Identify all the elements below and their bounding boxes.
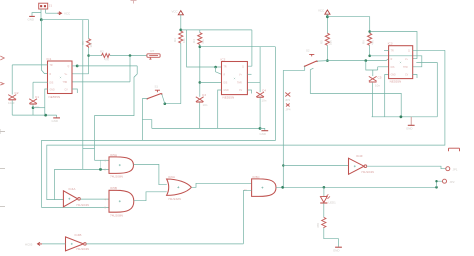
wire THR1 tap down xyxy=(129,56,131,82)
ground GND8 xyxy=(333,247,342,252)
svg-text:GND: GND xyxy=(406,127,412,131)
svg-text:Q: Q xyxy=(408,51,410,53)
wire C1 to GND pin xyxy=(33,107,45,109)
svg-text:CV: CV xyxy=(239,90,243,92)
wire AND3 out xyxy=(276,186,437,188)
wire R8 to ground xyxy=(324,228,339,247)
svg-text:IC1: IC1 xyxy=(47,57,52,61)
svg-text:DIS: DIS xyxy=(391,67,395,69)
svg-text:2A: 2A xyxy=(244,189,247,192)
wire switch3 common net xyxy=(310,68,401,117)
svg-text:R4: R4 xyxy=(192,39,196,43)
wire C4 bottom lead xyxy=(259,98,261,129)
junction dot AND3 out xyxy=(281,186,284,189)
wire down to INV1 input xyxy=(53,169,55,199)
net flag VCC right arrow xyxy=(58,11,71,15)
wire INV2 input xyxy=(42,243,66,245)
svg-text:GND: GND xyxy=(28,18,34,22)
svg-text:IC6A: IC6A xyxy=(168,175,176,179)
svg-text:JP2: JP2 xyxy=(450,180,455,184)
capacitor C1 xyxy=(29,95,40,109)
svg-text:C1: C1 xyxy=(35,95,39,99)
wire R2 to trimmer xyxy=(110,55,147,57)
svg-text:DIS: DIS xyxy=(224,83,228,85)
ground GND3 xyxy=(260,128,269,136)
net flag arrow left xyxy=(25,242,42,246)
wire ground rail 2 xyxy=(152,127,260,129)
svg-text:74LS04N: 74LS04N xyxy=(76,247,89,251)
svg-text:GND: GND xyxy=(260,132,266,136)
svg-text:C3: C3 xyxy=(202,93,206,97)
trimmer R7 xyxy=(147,49,160,59)
wire R4 bottom down to C3 xyxy=(199,45,201,97)
frame tick left D xyxy=(0,206,5,208)
wire stub above dot xyxy=(100,160,102,169)
frame tick top xyxy=(131,1,137,4)
wire THR1 row xyxy=(72,81,130,83)
wire R3 bottom to switch xyxy=(165,43,181,104)
svg-text:VCC: VCC xyxy=(64,11,70,15)
svg-text:JP3: JP3 xyxy=(285,98,290,102)
wire jog to ground xyxy=(32,13,41,16)
svg-text:CV: CV xyxy=(405,75,409,77)
wire CV3 stub xyxy=(413,75,417,79)
wire rail3 to V+3 xyxy=(370,32,417,59)
resistor R1 xyxy=(81,20,93,74)
wire VCC2 stem xyxy=(180,15,182,30)
wire R6 to THR3 xyxy=(370,56,422,67)
frame tick left B xyxy=(0,129,5,134)
wire TR1 row xyxy=(12,64,47,66)
wire GND1 pin down xyxy=(45,89,48,115)
supply arrow VCC3 xyxy=(318,9,330,15)
wire VCC drop long xyxy=(82,20,84,170)
wire DIS2 row xyxy=(200,81,222,83)
svg-text:47k: 47k xyxy=(371,40,375,45)
inverter U4A xyxy=(63,187,89,207)
svg-text:10k: 10k xyxy=(182,38,186,43)
svg-text:J1: J1 xyxy=(49,4,53,8)
svg-text:74LS04N: 74LS04N xyxy=(76,203,89,207)
capacitor C5 xyxy=(369,75,382,87)
wire THR2 riser xyxy=(247,47,260,92)
wire J1 pin1 down xyxy=(41,9,46,20)
wire C5 top lead xyxy=(372,70,374,76)
svg-text:10k: 10k xyxy=(89,42,93,47)
ground GND4 xyxy=(406,117,415,131)
IC3 555 timer xyxy=(388,42,413,84)
wire R5 to reset IC3 xyxy=(327,59,388,61)
wire Q1 long xyxy=(77,65,137,67)
junction dot U7 input xyxy=(282,164,284,166)
wire C3 bottom lead xyxy=(199,103,201,129)
svg-text:IC4B: IC4B xyxy=(75,233,82,237)
bus wire 2 xyxy=(47,50,445,199)
wire R1 to R2 xyxy=(89,55,102,57)
OR gate U6A xyxy=(167,175,192,201)
wire VCC rail 3 xyxy=(327,17,369,34)
wire VCC rail 1 xyxy=(41,19,88,21)
svg-text:GND: GND xyxy=(50,89,55,91)
junction dot R6 top xyxy=(368,30,371,33)
wire to VCC flag xyxy=(46,12,58,14)
svg-text:10n: 10n xyxy=(375,84,380,88)
svg-text:Q: Q xyxy=(68,66,70,68)
wire Q3 to bus2 xyxy=(413,49,445,51)
svg-text:47k: 47k xyxy=(104,57,109,61)
frame tick left A2 xyxy=(0,82,4,85)
svg-text:IC2: IC2 xyxy=(221,58,226,62)
AND gate U5B xyxy=(105,186,134,217)
svg-text:74LS08N: 74LS08N xyxy=(110,175,123,179)
svg-text:IC3: IC3 xyxy=(388,42,393,46)
svg-text:THR: THR xyxy=(63,82,68,84)
wire ground rail 2 left hook xyxy=(142,120,151,129)
wire switch3 net vertical xyxy=(282,70,284,187)
junction dot R4 bottom xyxy=(199,45,202,48)
resistor R5 xyxy=(320,33,333,45)
svg-text:C2: C2 xyxy=(15,91,19,95)
junction dot pad2 xyxy=(435,180,437,182)
svg-text:IC4A: IC4A xyxy=(69,187,77,191)
svg-text:74LS32N: 74LS32N xyxy=(168,197,181,201)
wire TR3 stub xyxy=(384,50,389,52)
wire OR out to AND3 in1 xyxy=(191,183,251,187)
wire Q1 down to gate xyxy=(95,66,138,160)
wire AND3 in2 riser xyxy=(243,190,251,243)
svg-text:NE555N: NE555N xyxy=(49,95,61,99)
wire INV2 output long xyxy=(86,243,243,245)
svg-text:10k: 10k xyxy=(329,40,333,45)
capacitor C3 xyxy=(196,93,208,107)
connector J1 xyxy=(39,3,53,9)
wire R6 bottom xyxy=(369,45,371,55)
wire LED to R8 xyxy=(323,203,325,217)
wire GND2 pin down xyxy=(218,90,222,128)
wire V+ row IC1 xyxy=(72,73,89,75)
junction dot switch2 xyxy=(164,102,167,105)
svg-text:IC5A: IC5A xyxy=(110,153,118,157)
wire CV2 stub xyxy=(247,90,251,94)
junction dot TR2 xyxy=(214,66,217,69)
frame tick left A xyxy=(0,56,4,60)
wire INV1 out to AND2 in1 xyxy=(80,198,109,200)
svg-text:NE555N: NE555N xyxy=(223,96,235,100)
junction dot R1 bottom branch xyxy=(87,54,90,57)
junction dot DIS2 xyxy=(199,81,202,84)
junction dot VCC2 xyxy=(179,29,182,32)
wire V+2 stub xyxy=(247,73,251,75)
wire AND1 in1 xyxy=(95,159,110,161)
wire C2 bottom lead xyxy=(11,100,13,115)
junction dot R6 bottom xyxy=(368,55,371,58)
AND gate U5A xyxy=(105,153,134,179)
svg-text:THR: THR xyxy=(403,67,408,69)
pad JP2 xyxy=(443,179,455,184)
junction dot DIS3 branch xyxy=(365,59,368,62)
svg-text:R5: R5 xyxy=(320,40,324,44)
junction dot ground rail xyxy=(44,114,47,117)
svg-text:DIS: DIS xyxy=(50,82,54,84)
wire DIS3 feed xyxy=(366,61,389,70)
junction dot Q1 xyxy=(76,65,79,68)
wire U7 out to pad1 xyxy=(367,166,446,169)
svg-text:GND: GND xyxy=(333,249,339,253)
junction dot switch3 xyxy=(326,59,329,62)
wire TR2 to R pin diagonal xyxy=(216,67,222,74)
wire AND1 in2 run xyxy=(54,168,109,170)
wire TR2 feed xyxy=(187,30,222,67)
resistor R6 xyxy=(362,33,375,45)
wire ground rail block1 xyxy=(12,114,56,116)
bus wire 1 xyxy=(42,47,276,208)
inverter U4B bottom xyxy=(66,233,89,251)
svg-text:R3: R3 xyxy=(173,38,177,42)
capacitor C4 xyxy=(256,88,267,102)
junction dot ground rail 3 xyxy=(400,115,403,118)
svg-text:10n: 10n xyxy=(203,103,208,107)
svg-text:THR: THR xyxy=(237,83,242,85)
junction dot pad2 branch xyxy=(435,186,438,189)
resistor R8 xyxy=(316,217,326,228)
wire GND3 pin down xyxy=(385,75,389,117)
svg-text:10n: 10n xyxy=(262,99,267,103)
junction dot VCC rail xyxy=(40,18,43,21)
resistor R4 xyxy=(192,30,205,45)
wire THR3 cap branch xyxy=(416,63,437,117)
svg-text:Q: Q xyxy=(242,66,244,68)
svg-text:R2: R2 xyxy=(100,50,104,54)
wire pad2 riser xyxy=(437,181,443,187)
svg-text:GND: GND xyxy=(52,119,58,123)
svg-text:CV: CV xyxy=(65,89,69,91)
svg-text:R7: R7 xyxy=(151,49,155,53)
svg-text:S1: S1 xyxy=(155,84,159,88)
svg-text:74LS04N: 74LS04N xyxy=(361,170,374,174)
svg-text:LED1: LED1 xyxy=(329,200,337,204)
svg-text:470: 470 xyxy=(316,223,320,228)
svg-text:NE555N: NE555N xyxy=(390,80,402,84)
wire rail2 drop to IC2 xyxy=(247,30,252,66)
wire C5 bottom lead xyxy=(372,83,374,117)
junction dot C1 branch xyxy=(32,106,35,109)
svg-text:TR: TR xyxy=(391,51,394,53)
wire VCC3 stem xyxy=(326,14,328,33)
svg-text:HC05: HC05 xyxy=(25,242,33,246)
svg-text:R6: R6 xyxy=(362,40,366,44)
svg-text:JP4: JP4 xyxy=(286,108,291,112)
IC1 555 timer xyxy=(47,57,73,99)
pad JP1 xyxy=(446,167,458,172)
wire C2 top lead xyxy=(11,65,13,95)
wire DIS1 row xyxy=(33,81,48,83)
ground GND2 xyxy=(52,115,61,123)
switch S2 xyxy=(304,48,328,67)
svg-text:JP1: JP1 xyxy=(453,167,458,171)
wire branch to AND1 in1 xyxy=(83,147,95,149)
svg-text:74LS08N: 74LS08N xyxy=(110,213,123,217)
resistor R3 xyxy=(173,31,186,43)
ground GND1 xyxy=(28,16,35,21)
connector frame mark top right xyxy=(449,148,460,151)
svg-text:IC5C: IC5C xyxy=(253,175,261,179)
svg-text:GND: GND xyxy=(391,75,396,77)
wire VCC to reset pin IC1 xyxy=(41,20,47,74)
svg-text:C4: C4 xyxy=(262,88,266,92)
frame tick left C xyxy=(0,168,5,170)
wire AND2 out to OR in2 xyxy=(134,192,167,201)
svg-text:IC4F: IC4F xyxy=(356,154,363,158)
svg-text:TR: TR xyxy=(50,65,53,67)
wire ground rail 3 xyxy=(372,116,438,118)
LED1 xyxy=(320,187,336,204)
IC2 555 timer xyxy=(221,58,248,100)
junction dot VCC3 xyxy=(326,15,329,18)
svg-text:C5: C5 xyxy=(378,75,382,79)
svg-text:47k: 47k xyxy=(201,39,205,44)
supply arrow VCC2 xyxy=(172,10,184,15)
wire Q1 output stub xyxy=(72,65,77,67)
svg-text:IC5B: IC5B xyxy=(110,186,117,190)
svg-text:TR: TR xyxy=(224,66,227,68)
AND gate U5C xyxy=(244,175,276,197)
wire R5 bottom xyxy=(326,45,328,60)
svg-text:VCC: VCC xyxy=(318,9,324,13)
svg-text:10uF: 10uF xyxy=(8,101,15,105)
svg-text:VCC: VCC xyxy=(172,10,178,14)
wire switch3 left drop xyxy=(283,66,304,70)
junction dot THR1 tap xyxy=(129,54,132,57)
wire AND1 out xyxy=(134,164,167,184)
resistor R2 xyxy=(100,50,110,62)
svg-text:S2: S2 xyxy=(306,48,310,52)
wire U7 input xyxy=(283,165,348,167)
wire CV1 stub xyxy=(72,89,77,93)
junction dot ground rail 2 xyxy=(259,127,262,130)
wire R4 to THR2 chain xyxy=(200,46,276,48)
junction dot LED branch xyxy=(323,186,326,189)
wire switch2 left to bus1 xyxy=(142,99,147,141)
svg-text:10n: 10n xyxy=(35,105,40,109)
jumper pads JP3 xyxy=(285,93,291,112)
inverter U7 xyxy=(349,154,374,174)
wire VCC rail 2 xyxy=(181,29,252,31)
wire C1 top lead xyxy=(32,82,34,99)
capacitor C2 xyxy=(8,91,19,105)
junction dot AND1 in2 xyxy=(99,168,102,171)
svg-text:GND: GND xyxy=(224,90,229,92)
switch S1 xyxy=(146,84,164,103)
wire C1 bottom lead xyxy=(32,105,34,116)
